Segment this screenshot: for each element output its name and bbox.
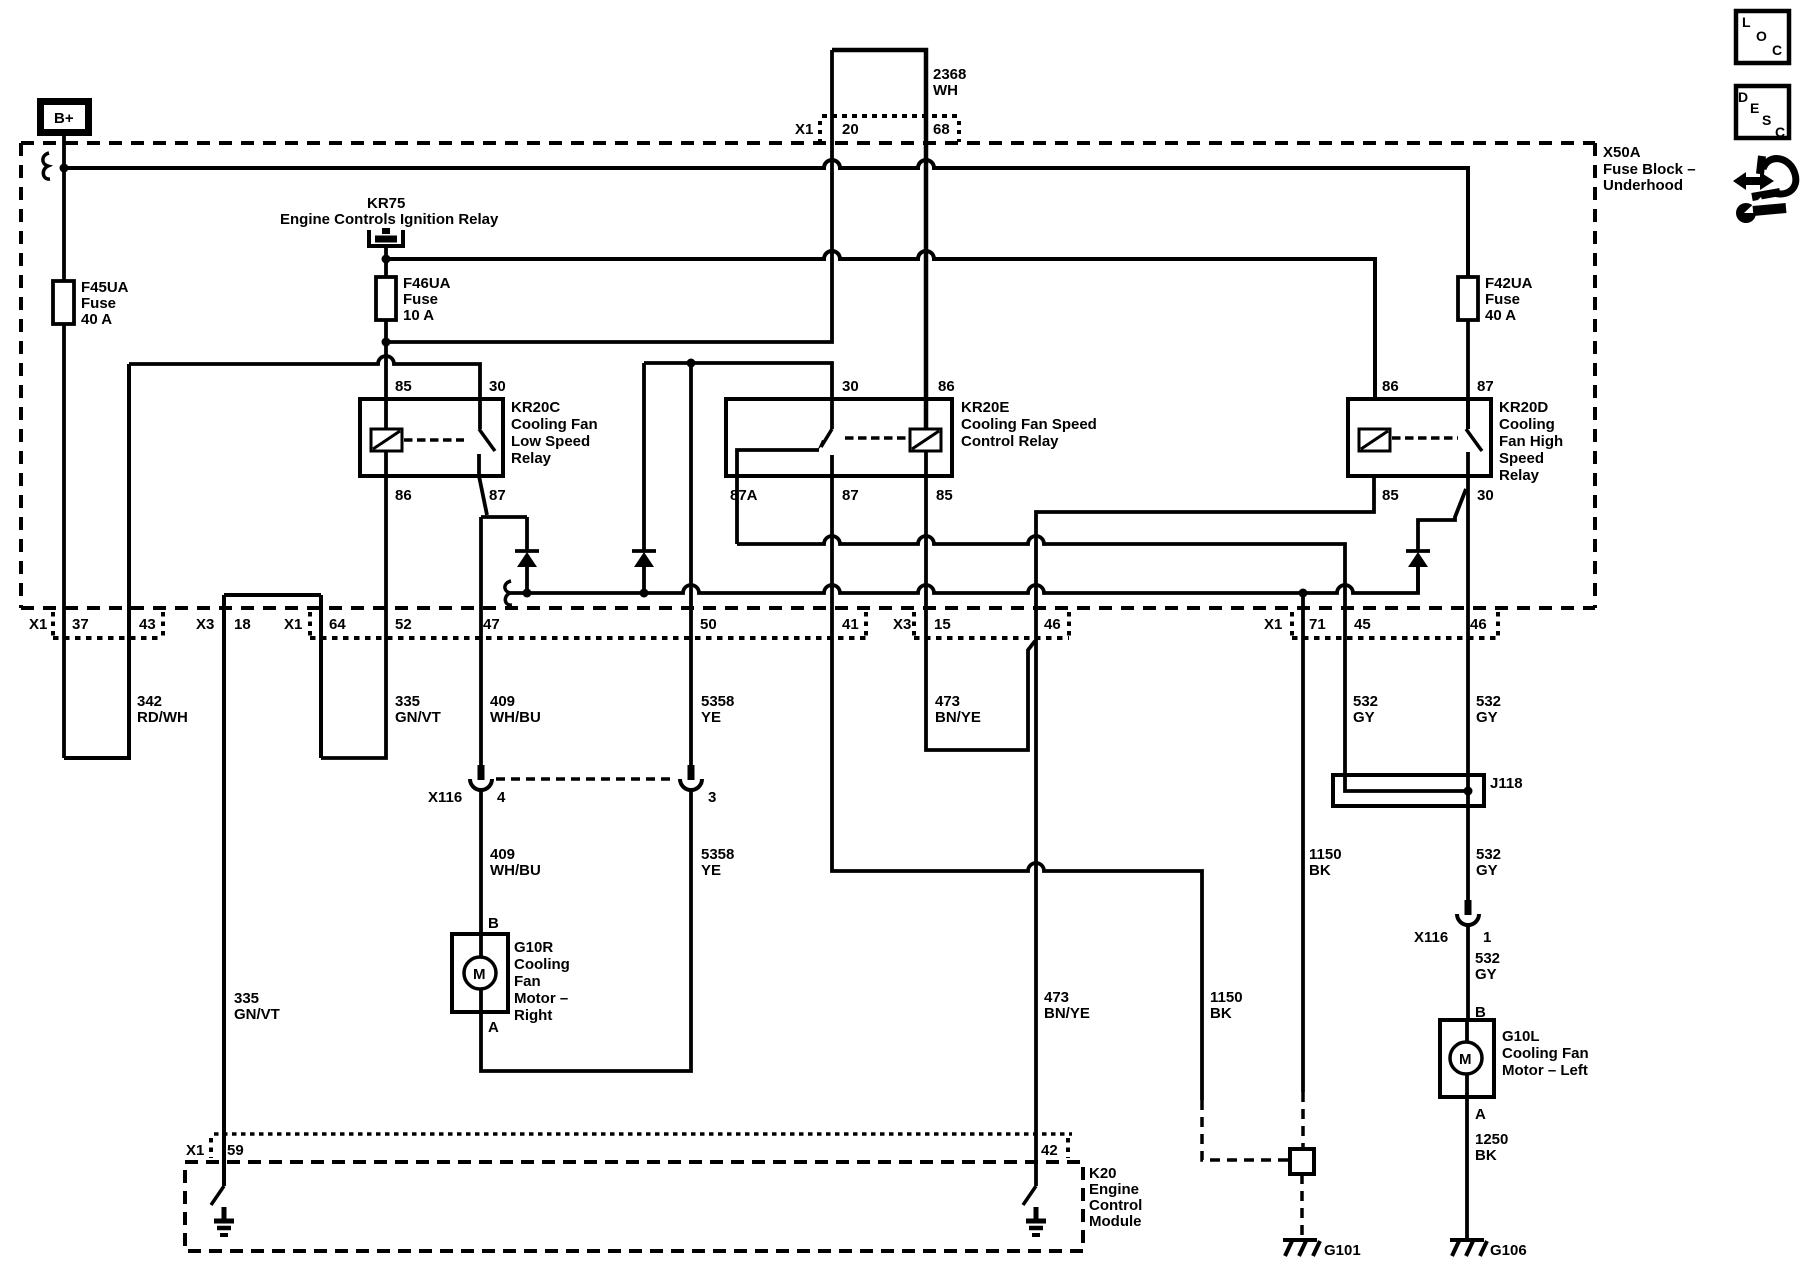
relay KR75 partial symbol <box>369 228 403 277</box>
diode D2 <box>632 551 656 567</box>
relay KR20D dashed link <box>1392 436 1458 440</box>
wire labels 1150 BK <box>1210 846 1342 1022</box>
svg-text:BN/YE: BN/YE <box>935 709 981 726</box>
svg-text:X3: X3 <box>893 616 911 633</box>
svg-text:46: 46 <box>1044 616 1061 633</box>
relay KR20E 87A contact wire <box>737 450 819 544</box>
diode D3 <box>1406 551 1430 567</box>
fuse F42UA <box>1458 277 1478 320</box>
svg-text:86: 86 <box>395 487 412 504</box>
svg-text:85: 85 <box>395 378 412 395</box>
svg-text:37: 37 <box>72 616 89 633</box>
fuse F46UA <box>376 277 396 320</box>
svg-text:J118: J118 <box>1490 775 1523 792</box>
wire 1250 motor G10L to G106 <box>1465 1097 1469 1240</box>
connector row separators <box>53 612 1498 638</box>
svg-text:WH: WH <box>933 82 958 99</box>
node F46UA junction <box>382 338 391 347</box>
svg-text:4: 4 <box>497 789 506 806</box>
wire 335 loop X1-52 to X1-64 <box>321 608 386 758</box>
wire motor G10R A return <box>481 790 691 1071</box>
svg-text:15: 15 <box>934 616 951 633</box>
svg-text:B+: B+ <box>54 110 74 127</box>
relay KR20E coil <box>910 429 941 451</box>
svg-text:335: 335 <box>395 693 420 710</box>
svg-text:18: 18 <box>234 616 251 633</box>
wire X1-50 drop <box>689 363 693 608</box>
relay KR20C dashed link <box>404 438 464 442</box>
svg-text:64: 64 <box>329 616 346 633</box>
wire labels below X116 <box>490 846 734 879</box>
motor G10L M symbol <box>1450 1020 1482 1097</box>
svg-text:Speed: Speed <box>1499 450 1544 467</box>
svg-text:30: 30 <box>1477 487 1494 504</box>
motor G10R M symbol <box>464 934 496 1012</box>
ECM switch 59 <box>211 1186 224 1205</box>
svg-text:86: 86 <box>938 378 955 395</box>
motor G10L name label <box>1502 1028 1589 1079</box>
relay KR20E box <box>726 399 952 476</box>
wire KR20D 85 to X3-46 <box>1036 476 1374 608</box>
svg-text:47: 47 <box>483 616 500 633</box>
relay KR20C pin labels <box>395 378 506 504</box>
svg-text:30: 30 <box>842 378 859 395</box>
svg-text:409: 409 <box>490 693 515 710</box>
svg-text:Fan: Fan <box>514 973 541 990</box>
node pin50 tap <box>687 359 696 368</box>
ECM K20 dashed box <box>185 1162 1083 1251</box>
ground G101 <box>1283 1240 1320 1256</box>
connector X116 pin 3 terminal <box>680 765 702 790</box>
svg-text:532: 532 <box>1353 693 1378 710</box>
ground G106 <box>1450 1240 1487 1256</box>
svg-text:G10R: G10R <box>514 939 553 956</box>
wire X1-46 532 through J118 <box>1466 608 1470 900</box>
wire X1-71 1150 drop <box>1301 608 1305 1092</box>
svg-text:M: M <box>1459 1051 1472 1068</box>
splice box G101 <box>1290 1149 1314 1174</box>
svg-text:1: 1 <box>1483 929 1491 946</box>
svg-text:335: 335 <box>234 990 259 1007</box>
svg-text:X50A: X50A <box>1603 144 1641 161</box>
svg-text:G106: G106 <box>1490 1242 1527 1259</box>
relay KR20D name label <box>1499 399 1563 484</box>
svg-text:X1: X1 <box>1264 616 1282 633</box>
svg-text:S: S <box>1762 112 1771 128</box>
svg-text:L: L <box>1742 14 1751 30</box>
svg-text:42: 42 <box>1041 1142 1058 1159</box>
svg-text:1250: 1250 <box>1475 1131 1508 1148</box>
svg-text:409: 409 <box>490 846 515 863</box>
LOC legend box <box>1736 11 1789 63</box>
X50A label <box>1603 144 1696 194</box>
svg-text:GY: GY <box>1475 966 1497 983</box>
svg-text:40 A: 40 A <box>1485 307 1516 324</box>
svg-text:342: 342 <box>137 693 162 710</box>
relay KR20C box <box>360 399 503 476</box>
svg-text:F46UA: F46UA <box>403 275 451 292</box>
relay KR20D switch blade <box>1466 429 1482 451</box>
svg-text:1150: 1150 <box>1309 846 1342 863</box>
svg-text:43: 43 <box>139 616 156 633</box>
wire X1-64 leg <box>319 595 323 758</box>
svg-text:GN/VT: GN/VT <box>395 709 441 726</box>
wire segment C to KR20E 30 <box>644 363 832 429</box>
relay KR20E dashed link <box>845 436 906 440</box>
svg-text:KR75: KR75 <box>367 195 405 212</box>
wire line A to X1-20 <box>386 50 832 342</box>
node X1-71 tap <box>1299 589 1308 598</box>
connector X116 pin 1 labels <box>1414 929 1500 983</box>
relay KR20E pin labels <box>730 378 955 504</box>
svg-text:KR20C: KR20C <box>511 399 560 416</box>
current hook at bus start <box>43 153 50 179</box>
wire X116-1 to motor G10L B <box>1466 925 1470 1020</box>
svg-text:87: 87 <box>489 487 506 504</box>
wire KR20D 30 diode branch <box>1418 489 1466 593</box>
svg-text:Fuse: Fuse <box>81 295 116 312</box>
wire 87A bus to X1-45 <box>737 536 1345 608</box>
svg-text:45: 45 <box>1354 616 1371 633</box>
svg-text:Cooling Fan: Cooling Fan <box>1502 1045 1589 1062</box>
relay KR20D pin 87 stub <box>1466 399 1470 429</box>
svg-text:41: 41 <box>842 616 859 633</box>
ECM switch 42 <box>1023 1186 1036 1205</box>
wire F42UA to KR20D 87 <box>1466 320 1470 429</box>
connector X116 dashed face <box>496 777 676 781</box>
svg-text:Motor –: Motor – <box>514 990 568 1007</box>
relay KR20C pin 87 stub <box>477 454 481 476</box>
wire label 532 below J118 <box>1476 846 1501 879</box>
svg-text:KR20E: KR20E <box>961 399 1009 416</box>
svg-text:3: 3 <box>708 789 716 806</box>
motor G10R box <box>452 934 508 1012</box>
svg-text:RD/WH: RD/WH <box>137 709 188 726</box>
connector X116 labels <box>428 789 716 806</box>
wire KR20C 86 to X1-52 <box>384 451 388 608</box>
relay KR20D box <box>1348 399 1491 476</box>
svg-text:10 A: 10 A <box>403 307 434 324</box>
node KR75 output <box>382 255 391 264</box>
svg-text:X116: X116 <box>428 789 462 806</box>
svg-text:BK: BK <box>1475 1147 1497 1164</box>
wire X1-71 drop <box>1301 593 1305 608</box>
X50A fuse block dashed box <box>21 143 1595 608</box>
svg-text:KR20D: KR20D <box>1499 399 1548 416</box>
connector X1 20/68 <box>820 116 959 142</box>
wire 1150 dashed to splice <box>1202 1100 1290 1160</box>
ECM connector labels <box>186 1142 1058 1159</box>
relay KR20D pin 30 stub <box>1466 452 1470 476</box>
motor G10L box <box>1440 1020 1494 1097</box>
svg-text:Fuse: Fuse <box>1485 291 1520 308</box>
svg-text:GY: GY <box>1476 862 1498 879</box>
svg-text:K20: K20 <box>1089 1165 1117 1182</box>
svg-text:Right: Right <box>514 1007 552 1024</box>
wire KR20E 85 to X3-15 <box>924 451 928 608</box>
connector X3-18 loop bracket <box>224 593 321 597</box>
svg-text:O: O <box>1756 28 1767 44</box>
svg-text:87: 87 <box>842 487 859 504</box>
svg-text:68: 68 <box>933 121 950 138</box>
wire line B ignition feed to KR20C 30 <box>129 356 480 429</box>
diode D1 branch wire <box>525 517 529 593</box>
svg-text:B: B <box>488 915 499 932</box>
svg-text:Cooling Fan: Cooling Fan <box>511 416 598 433</box>
svg-text:Engine Controls Ignition Relay: Engine Controls Ignition Relay <box>280 211 499 228</box>
wire labels above X116 <box>137 693 1501 726</box>
svg-text:473: 473 <box>1044 989 1069 1006</box>
svg-text:5358: 5358 <box>701 846 734 863</box>
motor G10R pin labels <box>488 915 499 1036</box>
svg-text:87A: 87A <box>730 487 758 504</box>
wire KR20D 30 to X1-46 <box>1466 476 1470 608</box>
svg-text:D: D <box>1738 89 1748 105</box>
node diode D2 <box>640 589 649 598</box>
svg-text:Cooling: Cooling <box>514 956 570 973</box>
svg-text:GN/VT: GN/VT <box>234 1006 280 1023</box>
node B+ junction <box>60 164 69 173</box>
svg-text:BK: BK <box>1210 1005 1232 1022</box>
svg-text:X1: X1 <box>795 121 813 138</box>
svg-text:A: A <box>1475 1106 1486 1123</box>
svg-text:85: 85 <box>1382 487 1399 504</box>
connector X116 pin 4 terminal <box>470 608 492 790</box>
svg-text:Fuse: Fuse <box>403 291 438 308</box>
svg-text:A: A <box>488 1019 499 1036</box>
svg-text:BK: BK <box>1309 862 1331 879</box>
repair icon (double arrow with part outline and wrench) <box>1733 156 1796 223</box>
ECM connector separators <box>211 1138 1068 1158</box>
relay KR20C coil <box>371 429 402 451</box>
svg-text:F42UA: F42UA <box>1485 275 1533 292</box>
svg-text:86: 86 <box>1382 378 1399 395</box>
wire 473 loop X3-15 to X3-46 <box>926 608 1035 750</box>
wire KR20C 87 to node 47 <box>479 476 487 515</box>
connector row bottom dotted segments <box>53 636 1498 640</box>
wire X1-50 to X116-3 <box>689 608 693 765</box>
svg-text:46: 46 <box>1470 616 1487 633</box>
svg-text:59: 59 <box>227 1142 244 1159</box>
svg-text:Relay: Relay <box>1499 467 1540 484</box>
svg-text:WH/BU: WH/BU <box>490 709 541 726</box>
svg-text:85: 85 <box>936 487 953 504</box>
svg-text:30: 30 <box>489 378 506 395</box>
ECM ground 59 <box>214 1207 234 1235</box>
svg-text:Underhood: Underhood <box>1603 177 1683 194</box>
fuse F45UA <box>53 281 74 324</box>
wire B+ feed down <box>62 136 66 281</box>
svg-text:GY: GY <box>1476 709 1498 726</box>
wire 1150 dashed to splice top <box>1301 1092 1305 1149</box>
svg-text:X3: X3 <box>196 616 214 633</box>
svg-text:Motor – Left: Motor – Left <box>1502 1062 1588 1079</box>
relay KR20C name label <box>511 399 598 467</box>
relay KR20E pin 87 stub <box>830 455 834 476</box>
motor G10R name label <box>514 939 570 1024</box>
diode D1 <box>515 551 539 567</box>
svg-text:X116: X116 <box>1414 929 1448 946</box>
svg-text:40 A: 40 A <box>81 311 112 328</box>
svg-text:50: 50 <box>700 616 717 633</box>
svg-text:87: 87 <box>1477 378 1494 395</box>
svg-text:X1: X1 <box>186 1142 204 1159</box>
ECM ground 42 <box>1026 1207 1046 1235</box>
wire control bus 593 <box>510 567 1418 593</box>
wire F45UA to X1-37 <box>62 324 66 758</box>
svg-text:1150: 1150 <box>1210 989 1243 1006</box>
diode D2 branch wire <box>642 363 646 593</box>
wire bus-1 B+ rail <box>64 160 1468 277</box>
svg-text:Control: Control <box>1089 1197 1142 1214</box>
wire splice to G101 ground <box>1300 1174 1304 1238</box>
ECM connector dotted face <box>214 1132 1072 1136</box>
ECM K20 name label <box>1089 1165 1142 1230</box>
wire labels 335 / 473 mid page <box>234 989 1090 1023</box>
svg-text:X1: X1 <box>29 616 47 633</box>
wire KR20E 87 to X1-41 <box>830 476 834 608</box>
svg-text:Fuse Block –: Fuse Block – <box>1603 161 1696 178</box>
svg-text:Engine: Engine <box>1089 1181 1139 1198</box>
svg-text:X1: X1 <box>284 616 302 633</box>
svg-text:Cooling Fan Speed: Cooling Fan Speed <box>961 416 1097 433</box>
svg-text:C: C <box>1775 124 1785 140</box>
svg-text:20: 20 <box>842 121 859 138</box>
svg-text:C: C <box>1772 42 1782 58</box>
svg-text:E: E <box>1750 100 1759 116</box>
wire F46UA output <box>384 320 388 429</box>
svg-text:M: M <box>473 966 486 983</box>
svg-text:2368: 2368 <box>933 66 966 83</box>
svg-text:532: 532 <box>1475 950 1500 967</box>
svg-text:F45UA: F45UA <box>81 279 129 296</box>
connector X116 pin 1 terminal <box>1457 900 1479 925</box>
svg-text:G101: G101 <box>1324 1242 1361 1259</box>
svg-text:473: 473 <box>935 693 960 710</box>
svg-text:Module: Module <box>1089 1213 1142 1230</box>
DESC legend box <box>1736 86 1789 140</box>
wire bus-2 ignition rail <box>386 251 1375 399</box>
wire 2358 WH jumper rectangle <box>832 50 926 429</box>
node J118 <box>1464 787 1473 796</box>
svg-text:Low Speed: Low Speed <box>511 433 590 450</box>
relay KR20C switch blade <box>479 429 495 451</box>
splice J118 box <box>1333 775 1484 806</box>
svg-text:532: 532 <box>1476 846 1501 863</box>
svg-text:Fan High: Fan High <box>1499 433 1563 450</box>
svg-text:71: 71 <box>1309 616 1326 633</box>
wire X1-45 532 to J118 <box>1345 608 1468 791</box>
wire 473 X3-46 to ECM 42 <box>1034 608 1038 1186</box>
svg-text:5358: 5358 <box>701 693 734 710</box>
wire label 1250 BK <box>1475 1131 1508 1164</box>
svg-text:G10L: G10L <box>1502 1028 1540 1045</box>
wire X1-41 to G101 branch <box>832 608 1202 1100</box>
svg-text:532: 532 <box>1476 693 1501 710</box>
connector row pin labels <box>29 616 1487 633</box>
node diode D1 <box>523 589 532 598</box>
svg-text:GY: GY <box>1353 709 1375 726</box>
wire 342 circuit X1-37 to X1-43 loop <box>64 364 129 758</box>
relay KR20E switch blade <box>821 429 832 447</box>
B+ battery feed box <box>41 102 89 133</box>
svg-text:Control Relay: Control Relay <box>961 433 1059 450</box>
svg-text:YE: YE <box>701 709 721 726</box>
svg-text:WH/BU: WH/BU <box>490 862 541 879</box>
svg-text:Cooling: Cooling <box>1499 416 1555 433</box>
wire X1-47 drop <box>479 517 483 608</box>
relay KR20D coil <box>1359 429 1390 451</box>
relay KR20E name label <box>961 399 1097 450</box>
relay KR20D pin labels <box>1382 378 1494 504</box>
svg-text:52: 52 <box>395 616 412 633</box>
svg-text:YE: YE <box>701 862 721 879</box>
wire X3-18 drop to ECM <box>222 595 226 1186</box>
wire 409 X116-4 to motor B <box>479 790 483 934</box>
svg-text:BN/YE: BN/YE <box>1044 1005 1090 1022</box>
current hook at control bus start <box>505 581 512 605</box>
svg-text:Relay: Relay <box>511 450 552 467</box>
